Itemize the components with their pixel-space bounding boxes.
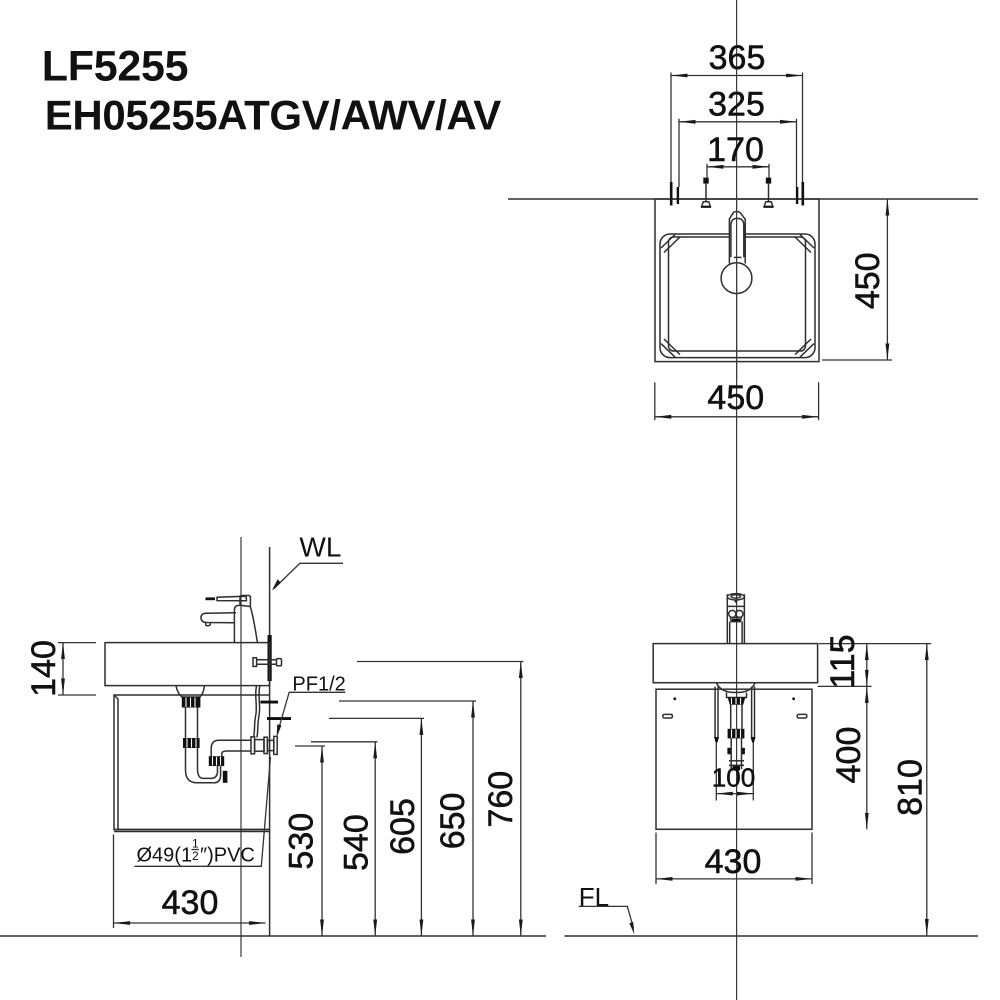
svg-text:760: 760 — [482, 771, 520, 828]
svg-text:530: 530 — [283, 813, 321, 870]
svg-text:″)PVC: ″)PVC — [200, 845, 255, 867]
svg-text:430: 430 — [705, 843, 762, 881]
svg-text:325: 325 — [708, 86, 765, 124]
svg-text:450: 450 — [849, 252, 887, 309]
svg-text:430: 430 — [162, 884, 219, 922]
svg-text:605: 605 — [384, 798, 422, 855]
svg-text:450: 450 — [707, 379, 764, 417]
svg-text:LF5255: LF5255 — [42, 43, 188, 91]
svg-text:WL: WL — [299, 531, 341, 562]
svg-text:365: 365 — [709, 39, 766, 77]
svg-text:650: 650 — [434, 793, 472, 850]
svg-text:115: 115 — [824, 634, 862, 688]
svg-text:540: 540 — [337, 814, 375, 871]
svg-text:170: 170 — [707, 131, 764, 169]
svg-text:400: 400 — [830, 727, 868, 784]
svg-text:140: 140 — [25, 640, 63, 697]
svg-text:FL: FL — [579, 882, 609, 912]
svg-text:100: 100 — [712, 763, 755, 793]
svg-text:2: 2 — [192, 849, 199, 863]
svg-text:Ø49(1: Ø49(1 — [137, 845, 193, 867]
svg-text:810: 810 — [892, 759, 930, 816]
svg-text:EH05255ATGV/AWV/AV: EH05255ATGV/AWV/AV — [45, 91, 501, 138]
